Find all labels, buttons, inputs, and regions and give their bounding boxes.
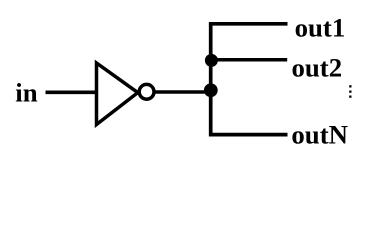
svg-text:in: in (15, 77, 37, 107)
svg-text:out2: out2 (292, 52, 343, 82)
svg-text:outN: outN (291, 120, 348, 150)
svg-text:out1: out1 (295, 13, 346, 43)
